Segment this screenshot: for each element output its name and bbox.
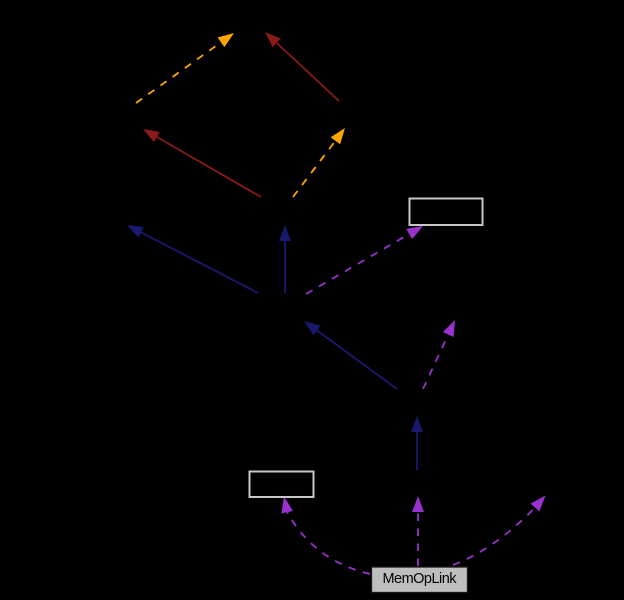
svg-text:MemOpLink: MemOpLink [383,571,458,587]
